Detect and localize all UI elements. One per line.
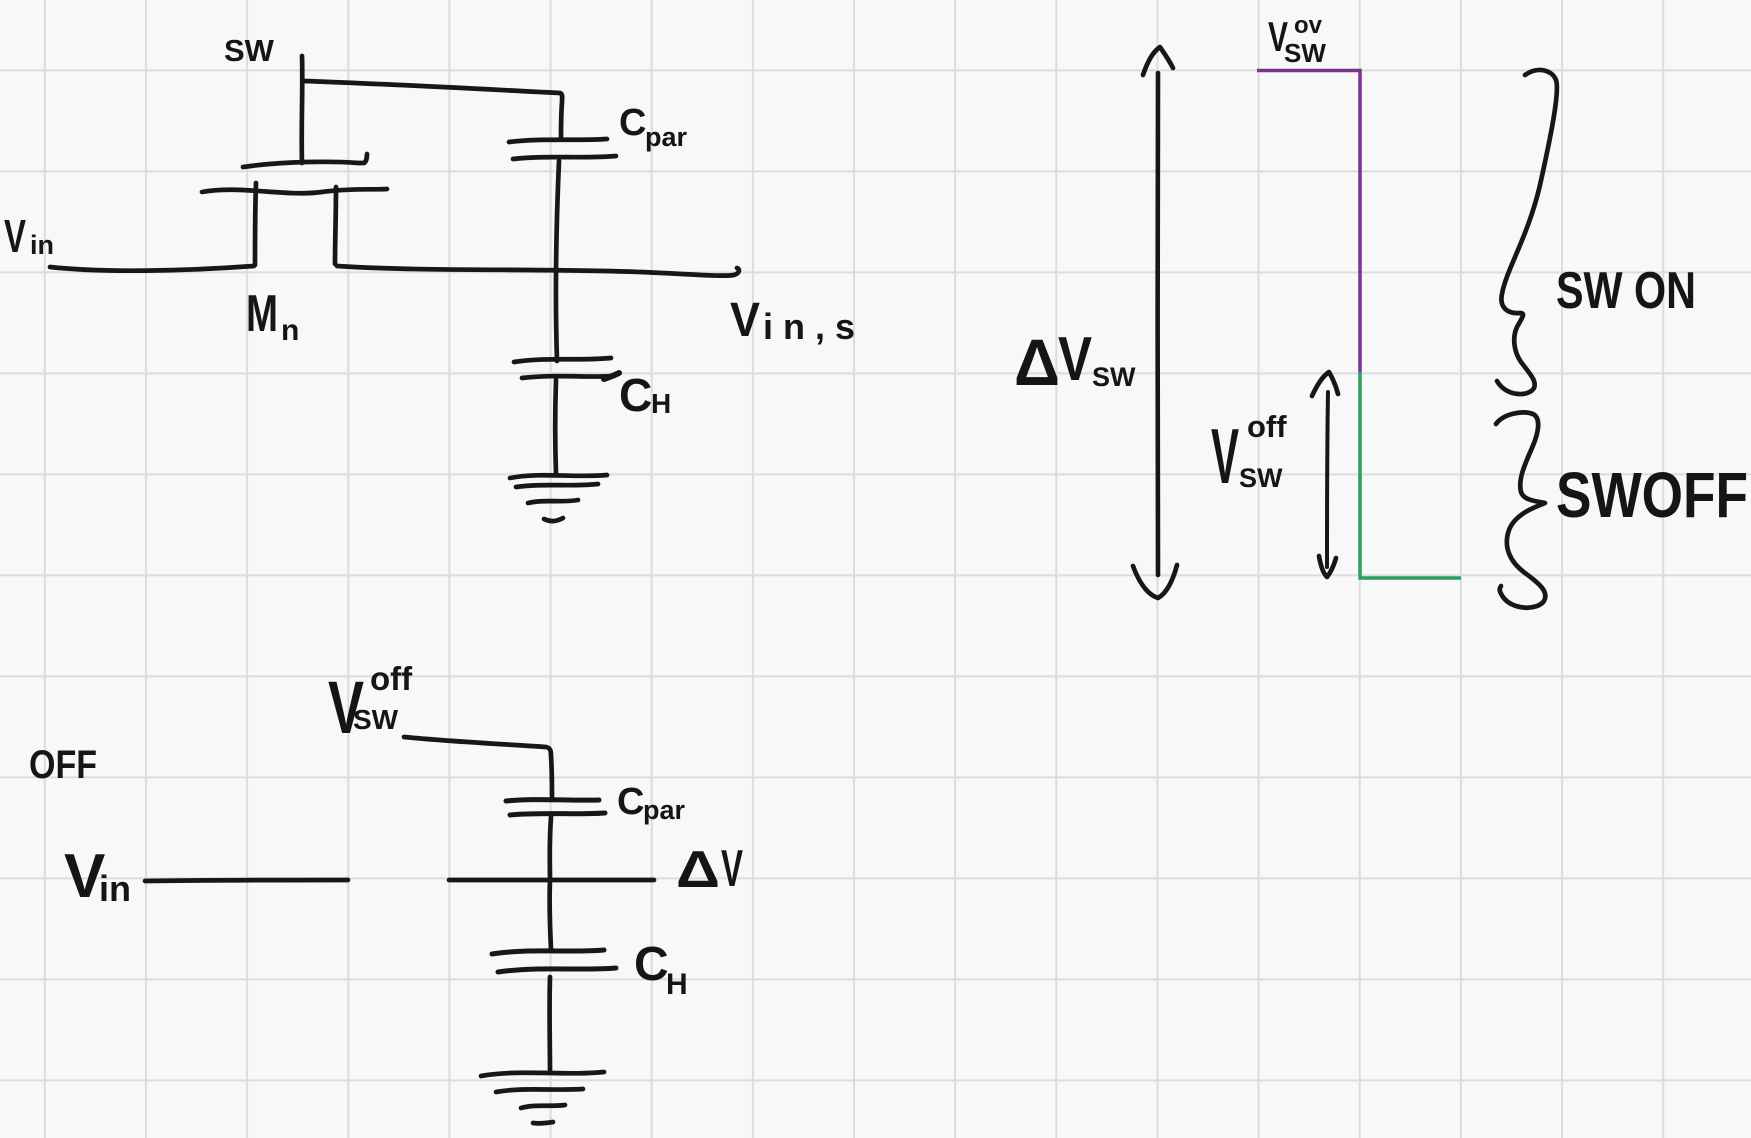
transistor Q1 channel bar <box>202 189 387 193</box>
svg-text:V: V <box>1211 412 1239 500</box>
svg-text:off: off <box>1247 409 1287 444</box>
waveform Vsw-on level (purple) <box>1257 71 1360 373</box>
svg-text:SWOFF: SWOFF <box>1556 459 1748 531</box>
svg-text:SW ON: SW ON <box>1556 262 1696 320</box>
wire Cpar2 to CH2 through node <box>550 817 551 949</box>
svg-text:C: C <box>634 938 669 991</box>
wire CH to ground <box>553 380 558 474</box>
capacitor C1 Cpar bottom plate <box>513 156 616 159</box>
capacitor C2 CH top plate <box>514 358 611 362</box>
capacitor C4 CH2 bottom plate <box>498 968 616 972</box>
svg-text:C: C <box>617 781 644 823</box>
svg-text:V: V <box>4 210 26 262</box>
capacitor C2 CH bottom plate <box>522 376 614 378</box>
capacitor C3 Cpar2 top plate <box>506 800 599 801</box>
svg-text:in,s: in,s <box>763 306 865 347</box>
brace SW ON <box>1497 70 1557 394</box>
svg-text:par: par <box>645 122 688 152</box>
svg-text:ov: ov <box>1294 12 1323 39</box>
capacitor C1 Cpar top plate <box>509 139 607 142</box>
svg-text:SW: SW <box>224 33 275 68</box>
svg-text:V: V <box>1058 325 1092 394</box>
wire Vin to source <box>50 266 254 271</box>
arrow dVsw double-headed vertical <box>1155 73 1160 575</box>
svg-text:C: C <box>619 102 646 144</box>
wire Cpar bottom through node to CH <box>556 161 559 361</box>
svg-text:H: H <box>651 388 671 419</box>
wire node dV right segment <box>449 878 654 883</box>
wire CH2 to ground <box>547 977 552 1072</box>
wire drain to node Vin,s <box>337 266 739 276</box>
capacitor C4 CH2 top plate <box>492 950 604 954</box>
wire gate vertical of Mn <box>299 56 304 163</box>
arrow Vsw-off small double-headed <box>1327 392 1328 567</box>
svg-text:H: H <box>666 968 688 1001</box>
svg-text:V: V <box>721 840 743 898</box>
svg-text:SW: SW <box>1284 38 1326 68</box>
transistor Q1 drain lead <box>335 187 336 264</box>
svg-text:Δ: Δ <box>1014 325 1060 399</box>
wire Vsw-off label to Cpar2 <box>404 737 552 800</box>
svg-text:V: V <box>730 294 760 347</box>
svg-text:OFF: OFF <box>29 743 97 787</box>
svg-text:C: C <box>619 369 652 421</box>
svg-text:Δ: Δ <box>676 841 720 899</box>
wire Vin2 left segment <box>145 880 348 881</box>
svg-text:SW: SW <box>353 704 399 735</box>
svg-text:n: n <box>281 314 299 347</box>
wire SW node to Cpar top <box>304 81 562 139</box>
transistor Q1 source lead <box>255 183 256 265</box>
svg-text:in: in <box>99 868 131 909</box>
svg-text:SW: SW <box>1239 463 1283 493</box>
svg-text:par: par <box>643 795 686 825</box>
waveform Vsw-off level (green) <box>1360 372 1461 578</box>
transistor Q1 gate bar <box>243 154 367 167</box>
svg-text:M: M <box>246 285 278 343</box>
svg-text:off: off <box>370 660 413 697</box>
ground symbol bottom circuit <box>481 1072 604 1076</box>
capacitor C3 Cpar2 bottom plate <box>510 813 605 815</box>
brace SW OFF <box>1496 412 1545 607</box>
svg-text:SW: SW <box>1092 362 1136 392</box>
svg-text:in: in <box>30 230 54 260</box>
ground symbol top circuit <box>510 475 607 478</box>
